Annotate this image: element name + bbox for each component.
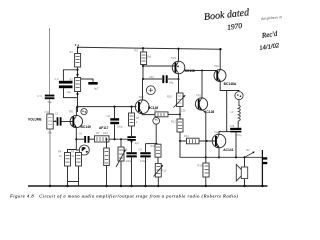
- node base line junction: [205, 140, 207, 142]
- wire C1 to TR1 base: [62, 121, 73, 123]
- preset pot R10: [167, 93, 186, 112]
- node R16 top: [106, 138, 108, 140]
- wire TR4 collector to rail: [219, 49, 221, 69]
- svg-text:5k: 5k: [72, 154, 75, 158]
- wire TR1 emitter down: [76, 128, 79, 150]
- wire TR3 emitter to rail: [178, 49, 180, 62]
- handwriting date 14/1/02: [259, 42, 280, 52]
- wire thermistor to R5 chain: [109, 138, 132, 140]
- transistor TR6 output: [212, 130, 233, 152]
- node rail-C8: [130, 185, 132, 187]
- node R1/R2 junction: [76, 69, 78, 71]
- svg-text:BC148A: BC148A: [224, 82, 237, 86]
- capacitor C3 (input coupling): [38, 94, 55, 104]
- resistor R3: [135, 49, 152, 65]
- node rail-R3: [142, 47, 144, 49]
- svg-text:C 2: C 2: [55, 77, 60, 81]
- test point circle TP1: [79, 145, 89, 155]
- handwriting 1970: [227, 21, 243, 32]
- test point circle TP2: [153, 117, 160, 124]
- svg-text:50µ: 50µ: [48, 100, 53, 104]
- wire C10 to speaker line: [235, 132, 237, 157]
- resistor R5: [129, 113, 140, 126]
- wire parallel feed: [226, 91, 228, 132]
- bottom rail: [28, 185, 268, 187]
- svg-text:BC149: BC149: [81, 125, 91, 129]
- transistor TR4 BC148A: [214, 64, 237, 86]
- wire TR3 to TR4/TR5: [185, 70, 217, 72]
- svg-text:1970: 1970: [227, 21, 243, 32]
- wire decoupling branch to C2: [63, 70, 77, 81]
- transistor TR3 BC158: [171, 56, 195, 74]
- resistor R12: [171, 119, 183, 132]
- wire R12 to base line: [179, 132, 181, 141]
- svg-text:AC141: AC141: [223, 148, 233, 152]
- svg-text:5k6: 5k6: [147, 55, 152, 59]
- svg-text:R13: R13: [162, 169, 167, 173]
- wire speaker line: [180, 141, 263, 157]
- node rail-TR3: [177, 48, 179, 50]
- svg-text:14/1/02: 14/1/02: [259, 42, 280, 52]
- node feedback: [155, 143, 157, 145]
- capacitor C5 4u7: [88, 82, 99, 91]
- wire TR3 collector down: [178, 74, 180, 93]
- wire R1 chain vertical: [77, 47, 79, 112]
- resistor R1: [70, 50, 81, 67]
- svg-text:Book dated: Book dated: [203, 7, 250, 23]
- svg-text:Amplifiers m: Amplifiers m: [261, 15, 282, 21]
- wire coil to cap: [237, 122, 239, 128]
- wire branch to C5: [81, 79, 93, 82]
- capacitor C1: [55, 112, 62, 126]
- svg-text:220: 220: [181, 108, 186, 112]
- wire TR6 emitter to speaker line: [218, 148, 220, 158]
- svg-text:C 3: C 3: [38, 94, 43, 98]
- node rail-R1: [77, 46, 79, 48]
- node R3 bottom: [142, 65, 144, 67]
- wire feedback horizontal to C9: [146, 143, 158, 145]
- svg-text:R15: R15: [198, 164, 203, 168]
- node driver base line: [179, 140, 181, 142]
- wire C6 chain vertical: [114, 107, 116, 140]
- handwriting Rec'd: [260, 30, 278, 40]
- lamp LP1: [235, 92, 243, 100]
- node TR3 collector: [178, 78, 180, 80]
- wire down to TR5: [201, 71, 203, 99]
- node rail-C12: [261, 185, 263, 187]
- svg-text:R10: R10: [167, 95, 172, 99]
- inductor L1: [231, 100, 241, 122]
- wire emitter node to C4: [76, 138, 84, 140]
- svg-text:C9: C9: [139, 148, 143, 152]
- capacitor C4: [79, 132, 90, 143]
- wire volume pot to bottom rail: [49, 129, 51, 186]
- wire R4 to rail: [67, 166, 69, 186]
- node TR6 emitter: [218, 156, 220, 158]
- resistor R14: [184, 134, 199, 144]
- capacitor C12: [262, 150, 267, 186]
- capacitor C11: [149, 75, 174, 85]
- wire feedback vertical: [155, 124, 157, 143]
- node rail end: [219, 48, 221, 50]
- potentiometer VR1 volume: [28, 110, 57, 135]
- node R2 bottom: [76, 93, 78, 95]
- svg-text:C42: C42: [103, 131, 108, 135]
- svg-text:C1: C1: [55, 112, 59, 116]
- wire C11 to TR3 collector: [168, 78, 179, 80]
- capacitor C2: [55, 77, 78, 98]
- top supply rail: [77, 47, 221, 49]
- svg-text:L1: L1: [231, 110, 234, 114]
- wire R3 to TR3 base: [143, 65, 175, 67]
- resistor R15: [198, 163, 210, 186]
- node rail-R4: [66, 185, 68, 187]
- node C11 branch: [142, 78, 144, 80]
- svg-text:R3: R3: [135, 49, 139, 53]
- wire TR2 collector chain: [142, 48, 144, 79]
- wire base line horizontal: [180, 140, 215, 142]
- capacitor C10 470u: [230, 124, 242, 137]
- node TR1 emitter branch: [75, 138, 77, 140]
- wire C8 to rail: [131, 157, 133, 186]
- resistor R8 1k: [154, 108, 168, 117]
- resistor R16: [104, 139, 110, 187]
- resistor R4: [58, 150, 71, 166]
- resistor R6: [71, 150, 82, 166]
- svg-text:R11: R11: [151, 144, 156, 148]
- wire mid bus to TR2 base: [78, 106, 137, 108]
- switch earphone: [245, 148, 256, 158]
- svg-text:100µ: 100µ: [126, 159, 132, 163]
- capacitor C7: [127, 136, 139, 145]
- resistor R11: [151, 144, 162, 157]
- wire TR4 emitter to lamp: [220, 82, 239, 92]
- svg-text:Rec'd: Rec'd: [260, 30, 278, 40]
- svg-text:R4: R4: [58, 150, 62, 154]
- speaker LS1: [236, 157, 247, 186]
- svg-text:R14: R14: [184, 134, 189, 138]
- svg-text:TR2: TR2: [139, 95, 144, 99]
- svg-text:R12: R12: [171, 120, 176, 124]
- svg-text:C6: C6: [107, 114, 111, 118]
- wire R8 to driver chain: [168, 113, 180, 115]
- svg-text:TR3: TR3: [171, 56, 176, 60]
- svg-text:AF117: AF117: [99, 126, 109, 130]
- node speaker line left: [205, 156, 207, 158]
- node bus-C6: [113, 106, 115, 108]
- node split TR4/TR5: [201, 70, 203, 72]
- svg-text:TR5: TR5: [196, 94, 201, 98]
- svg-text:Figure 4.8 Circuit of a mono: Figure 4.8 Circuit of a mono audio ampli…: [9, 193, 238, 198]
- transistor TR5: [195, 94, 214, 115]
- label rail marks: [75, 44, 79, 46]
- capacitor C9: [139, 148, 151, 163]
- svg-text:TR1: TR1: [69, 110, 74, 114]
- test point circle TP0: [81, 109, 87, 115]
- svg-text:R7: R7: [96, 131, 100, 135]
- wire R5 vertical chain: [131, 107, 133, 153]
- test point circle TP3: [146, 86, 155, 95]
- svg-text:VOLUME: VOLUME: [28, 118, 42, 122]
- wire TR5 chain to rail: [205, 141, 208, 163]
- wire C11 branch: [143, 78, 162, 80]
- thermistor R7: [90, 131, 110, 142]
- wire C9 stem: [145, 144, 147, 186]
- svg-text:C4: C4: [79, 132, 83, 136]
- svg-text:64µ: 64µ: [169, 81, 174, 85]
- svg-text:C46: C46: [230, 124, 235, 128]
- handwriting amplifiers note: [261, 15, 282, 21]
- wire emitter resistors top link: [68, 150, 77, 153]
- wire bootstrap to TR6 collector: [219, 132, 230, 135]
- svg-text:10µ: 10µ: [67, 90, 72, 94]
- node speaker drop: [243, 156, 245, 158]
- node C10 speaker: [235, 156, 237, 158]
- node rail-speaker: [243, 185, 245, 187]
- svg-text:1k: 1k: [59, 154, 62, 158]
- capacitor C8 100u: [124, 148, 137, 163]
- svg-text:TR6: TR6: [214, 130, 219, 134]
- node rail-R15: [205, 185, 207, 187]
- node bus-R5: [130, 106, 132, 108]
- handwriting Book dated: [203, 7, 250, 23]
- resistor R2: [70, 78, 81, 92]
- wire input vertical from tuner: [49, 28, 51, 114]
- svg-text:3Ω: 3Ω: [246, 148, 249, 152]
- wire pot R10 to R12: [179, 107, 181, 120]
- svg-text:4µ7: 4µ7: [135, 141, 140, 145]
- svg-text:TR4: TR4: [214, 64, 219, 68]
- svg-text:4µ7: 4µ7: [94, 87, 99, 91]
- wire TR2 emitter: [142, 113, 155, 116]
- transistor TR2 BC149: [135, 95, 158, 114]
- node rail-volume: [49, 185, 51, 187]
- node driver chain: [179, 113, 181, 115]
- preset pot R13: [154, 157, 167, 186]
- capacitor C6: [107, 114, 123, 129]
- node C7 bottom: [130, 140, 132, 142]
- svg-text:C31: C31: [45, 110, 50, 114]
- svg-text:R1: R1: [70, 50, 74, 54]
- node therm line crossing: [113, 138, 115, 140]
- node bus-TR1: [76, 106, 78, 108]
- svg-text:C42: C42: [149, 75, 154, 79]
- svg-text:R6: R6: [71, 150, 75, 154]
- svg-text:k: k: [136, 120, 138, 124]
- node rail-C9: [144, 185, 146, 187]
- preset pot R9: [116, 138, 126, 186]
- svg-text:100µ: 100µ: [117, 125, 123, 129]
- node rail-R13: [157, 185, 159, 187]
- svg-text:36: 36: [136, 116, 139, 120]
- wire TR5 emitter down: [202, 110, 206, 141]
- node rail-R9: [120, 185, 122, 187]
- wire R6 to rail: [68, 166, 79, 186]
- transistor TR1 BC149: [69, 110, 91, 130]
